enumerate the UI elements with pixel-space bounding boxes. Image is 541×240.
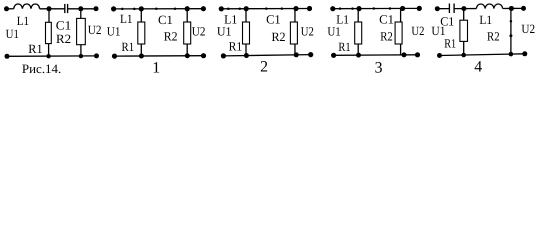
fig 1: input terminal top: [111, 6, 116, 11]
fig 3: resistor R2 bottom lead: [400, 44, 402, 55]
fig 2: C1 branch end small dot: [281, 7, 284, 10]
fig 4: inductor L1 (3-hump coil): [476, 4, 502, 9]
fig 3: C1 branch end small dot: [389, 7, 392, 10]
fig 1: input terminal bottom: [112, 54, 117, 59]
fig 3: bottom rail wire: [334, 54, 418, 57]
fig 2: L1 branch start small dot: [227, 8, 230, 11]
fig 1: resistor R2 top lead: [186, 9, 188, 22]
fig 2: node B junction dot: [293, 6, 298, 11]
output terminal bottom: [94, 53, 99, 58]
fig 4: wire to C1: [437, 8, 449, 10]
fig 2: node B' bottom junction dot: [294, 52, 299, 57]
fig 2: output terminal top: [307, 6, 312, 11]
fig 2: resistor R1 top lead: [245, 9, 247, 22]
svg-text:R1: R1: [122, 40, 135, 54]
inductor L1 (3-hump coil): [14, 4, 40, 9]
fig 1: resistor R2 body: [184, 22, 191, 44]
fig 1: node A' bottom junction dot: [139, 53, 144, 58]
fig 4: wire C1 to node A: [454, 8, 476, 10]
fig 2: bottom rail wire: [223, 55, 310, 56]
fig 1: resistor R1 body: [138, 22, 145, 44]
fig 4: resistor R1 bottom lead: [463, 41, 465, 55]
fig 3: node B' bottom junction dot: [402, 52, 407, 57]
fig 2: output terminal bottom: [308, 52, 313, 57]
fig 2: input terminal top: [219, 6, 224, 11]
fig 4: node B junction dot: [509, 6, 514, 11]
fig 3: node A junction dot: [356, 6, 361, 11]
node B junction dot: [78, 6, 83, 11]
resistor R2 bottom lead: [80, 45, 82, 57]
fig 3: input terminal bottom: [331, 53, 336, 58]
fig 3: resistor R1 bottom lead: [357, 44, 359, 55]
fig 3: output terminal bottom: [415, 52, 420, 57]
svg-text:C1: C1: [379, 13, 394, 27]
svg-text:U2: U2: [192, 24, 206, 38]
fig 3: top rail wire: [333, 7, 420, 9]
svg-text:4: 4: [474, 59, 482, 76]
resistor R2 body: [77, 18, 86, 44]
svg-text:U1: U1: [431, 24, 445, 38]
fig 3: L1 branch end small dot: [351, 7, 354, 10]
fig 1: C1 branch end small dot: [174, 8, 177, 11]
svg-text:R1: R1: [28, 42, 42, 56]
svg-text:1: 1: [152, 60, 160, 77]
fig 3: output terminal top: [417, 6, 422, 11]
fig 1: L1 branch end small dot: [133, 8, 136, 11]
fig 2: L1 branch end small dot: [239, 7, 242, 10]
fig 1: output terminal bottom: [201, 53, 206, 58]
svg-text:L1: L1: [120, 12, 133, 26]
fig 2: resistor R1 bottom lead: [245, 44, 247, 56]
fig 4: resistor R1 top lead: [463, 9, 465, 21]
svg-text:U2: U2: [521, 22, 535, 36]
fig 2: input terminal bottom: [221, 53, 226, 58]
bottom rail wire: [7, 55, 97, 57]
fig 1: L1 branch start small dot: [121, 8, 124, 11]
fig 1: top rail wire: [114, 8, 204, 10]
svg-text:U1: U1: [6, 27, 19, 41]
fig 2: resistor R1 body: [243, 22, 250, 44]
fig 2: resistor R2 body: [290, 22, 297, 44]
fig 2: resistor R2 top lead: [294, 9, 296, 22]
fig 1: resistor R2 bottom lead: [186, 44, 188, 56]
resistor R2 top lead: [80, 9, 82, 19]
fig 3: resistor R1 top lead: [357, 9, 359, 22]
resistor R1 top lead: [48, 9, 50, 22]
fig 1: output terminal top: [201, 6, 206, 11]
svg-text:R1: R1: [338, 40, 350, 54]
svg-text:L1: L1: [17, 14, 29, 28]
wire C1 to node B: [68, 8, 96, 10]
wire L1 to node A: [40, 8, 65, 10]
svg-text:U1: U1: [107, 24, 121, 38]
svg-text:3: 3: [375, 60, 383, 76]
fig 3: node A' bottom junction dot: [356, 53, 361, 58]
fig 4: input terminal top: [435, 6, 440, 11]
fig 3: node B junction dot: [400, 6, 405, 11]
node A' junction dot bottom: [46, 54, 50, 58]
svg-text:U1: U1: [217, 24, 232, 38]
fig 4: capacitor C1 right plate: [453, 4, 455, 14]
fig 1: node A junction dot: [139, 6, 144, 11]
fig 1: C1 branch start small dot: [155, 8, 158, 11]
svg-text:Рис.14.: Рис.14.: [22, 62, 61, 76]
node A junction dot: [47, 6, 52, 11]
fig 4: bottom rail wire: [440, 54, 525, 56]
fig 4: resistor R1 body: [460, 20, 468, 41]
wire top-left to L1: [7, 8, 14, 10]
fig 4: node A junction dot: [461, 6, 466, 11]
svg-text:R2: R2: [487, 29, 500, 43]
fig 2: C1 branch start small dot: [265, 7, 268, 10]
fig 4: output terminal bottom: [522, 51, 527, 56]
svg-text:U2: U2: [411, 24, 424, 38]
fig 3: resistor R2 body: [395, 22, 402, 44]
fig 1: node B junction dot: [185, 6, 190, 11]
fig 4: R2 branch lower small dot: [509, 34, 512, 37]
svg-text:C1: C1: [56, 19, 71, 33]
svg-text:C1: C1: [266, 13, 281, 27]
fig 3: L1 branch start small dot: [339, 7, 342, 10]
svg-text:U2: U2: [301, 24, 314, 38]
fig 2: resistor R2 bottom lead: [294, 44, 296, 55]
fig 1: resistor R1 bottom lead: [140, 44, 142, 56]
fig 4: R2 branch wire: [510, 8, 512, 54]
node B' junction dot bottom: [79, 54, 83, 58]
resistor R1 body: [46, 22, 52, 43]
fig 3: C1 branch start small dot: [373, 7, 376, 10]
fig 2: top rail wire: [221, 8, 309, 10]
svg-text:R2: R2: [380, 30, 393, 44]
capacitor C1 right plate: [67, 4, 69, 13]
output terminal top (node 2): [94, 6, 99, 11]
svg-text:R1: R1: [444, 37, 456, 51]
svg-text:R2: R2: [164, 29, 178, 43]
capacitor C1 left plate: [64, 4, 66, 13]
fig 3: input terminal top: [330, 6, 335, 11]
svg-text:C1: C1: [158, 13, 173, 27]
fig 4: wire L1 to node B: [503, 7, 524, 9]
fig 2: node A' bottom junction dot: [244, 53, 249, 58]
svg-text:L1: L1: [479, 13, 492, 27]
fig 1: bottom rail wire: [115, 55, 204, 57]
fig 1: node B' bottom junction dot: [185, 53, 190, 58]
svg-text:U2: U2: [88, 23, 102, 37]
svg-text:2: 2: [260, 59, 268, 76]
input terminal bottom: [5, 54, 10, 59]
fig 4: R2 branch upper small dot: [510, 20, 513, 23]
fig 1: resistor R1 top lead: [140, 9, 142, 22]
fig 2: node A junction dot: [244, 6, 249, 11]
fig 3: resistor R2 top lead: [400, 8, 402, 22]
fig 3: resistor R1 body: [355, 22, 362, 44]
svg-text:U1: U1: [327, 24, 340, 38]
fig 4: output terminal top: [521, 6, 526, 11]
svg-text:R2: R2: [56, 32, 71, 46]
resistor R1 bottom lead: [48, 44, 50, 57]
fig 4: input terminal bottom: [437, 53, 442, 58]
fig 4: capacitor C1 left plate: [448, 4, 450, 14]
svg-text:R2: R2: [272, 30, 286, 44]
fig 4: node A' bottom junction dot: [461, 53, 466, 58]
circuit 0 input terminal top (node 1): [4, 6, 9, 11]
svg-text:R1: R1: [229, 40, 243, 54]
fig 4: node B' bottom junction dot: [509, 52, 514, 57]
